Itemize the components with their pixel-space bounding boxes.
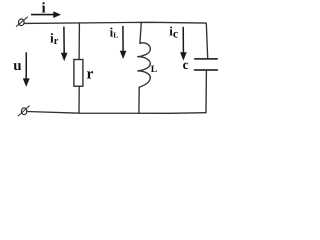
svg-text:u: u	[13, 58, 21, 74]
current arrow i_r	[61, 27, 68, 62]
wire capacitor bottom lead	[205, 70, 207, 112]
wire resistor bottom lead	[78, 87, 80, 113]
svg-text:L: L	[151, 64, 158, 75]
wire resistor top lead	[78, 23, 80, 59]
current arrow i (top)	[31, 11, 61, 18]
svg-text:r: r	[87, 66, 94, 83]
current arrow i_c	[180, 27, 187, 61]
svg-text:c: c	[183, 57, 189, 72]
wire bottom	[27, 112, 206, 114]
voltage arrow u	[23, 52, 30, 87]
resistor r box	[74, 60, 83, 87]
capacitor c bottom plate	[195, 69, 218, 71]
terminal bottom-left	[18, 106, 29, 116]
wire capacitor top lead	[206, 23, 207, 58]
terminal top-left	[17, 17, 28, 26]
inductor L coil	[137, 43, 150, 87]
wire inductor bottom lead	[138, 87, 140, 113]
current arrow i_L	[120, 26, 127, 59]
svg-text:iL: iL	[110, 24, 119, 39]
capacitor c top plate	[195, 58, 217, 60]
svg-text:ic: ic	[169, 24, 179, 41]
svg-text:i: i	[42, 0, 46, 16]
svg-text:ir: ir	[50, 31, 59, 48]
wire inductor top lead	[140, 22, 141, 43]
wire top	[24, 22, 206, 23]
